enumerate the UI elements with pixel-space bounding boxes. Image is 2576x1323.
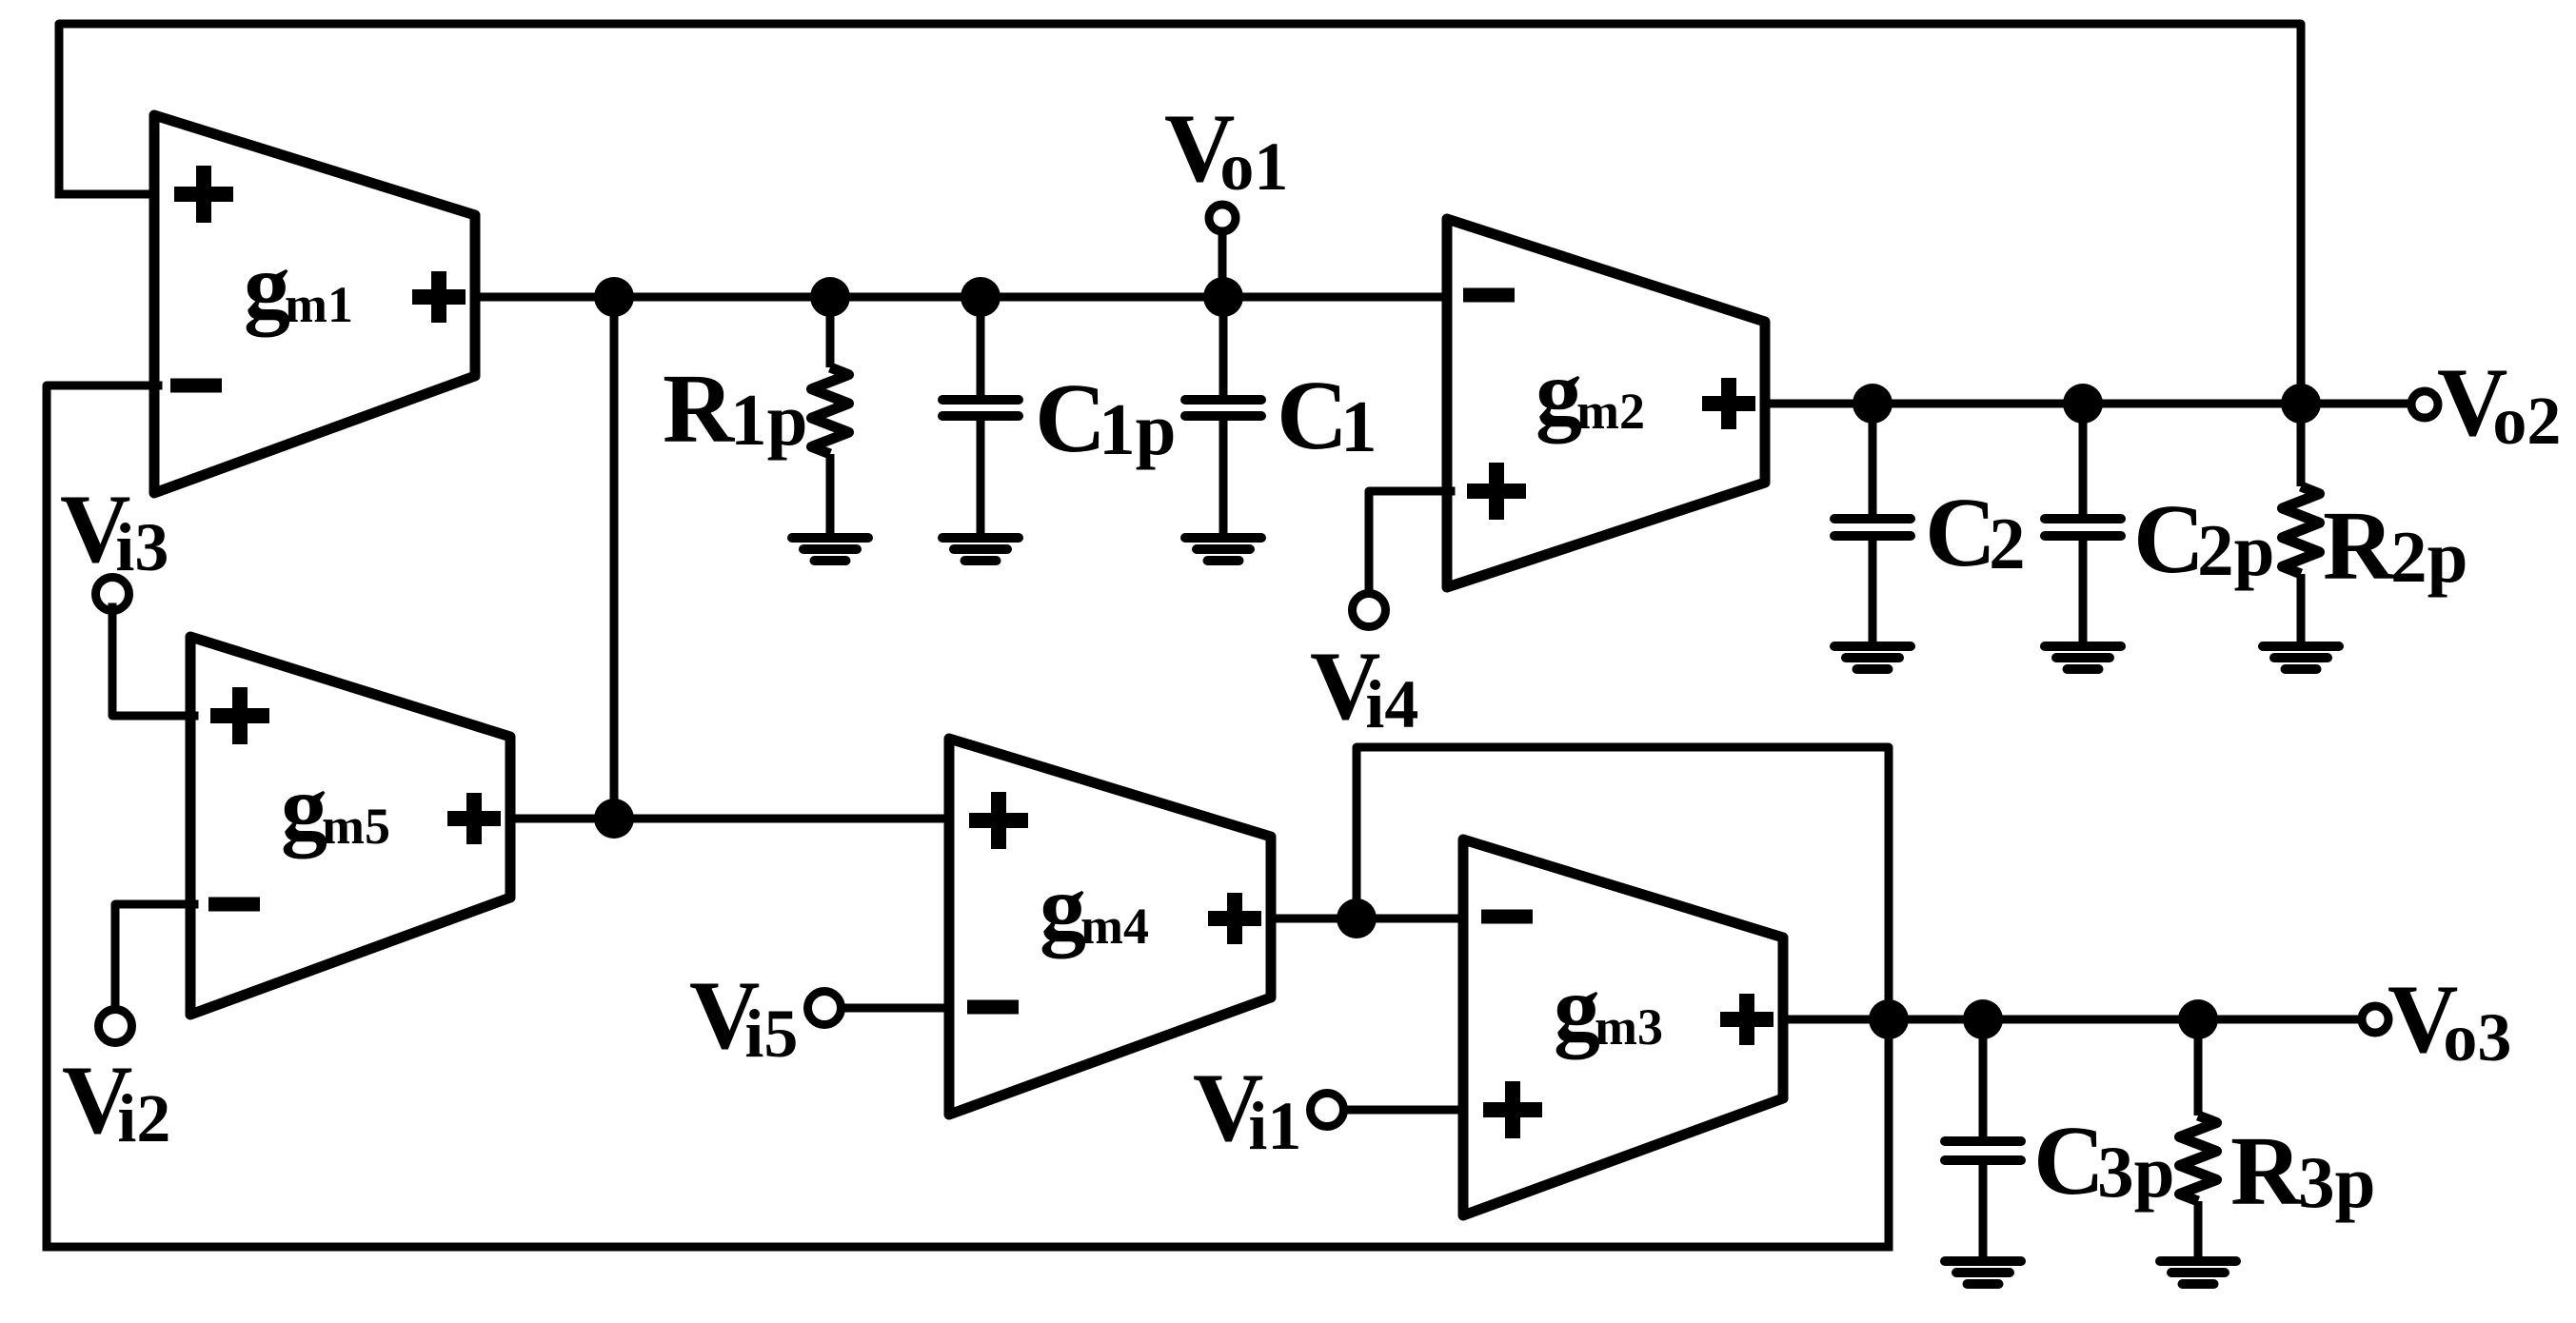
node Vi5 terminal xyxy=(808,992,954,1025)
wire vertical from node Vo1 row down to gm5 output node xyxy=(610,297,619,819)
junction node at (645,312) xyxy=(594,277,634,317)
ground R3p xyxy=(2160,1261,2236,1284)
junction node at (1285,312) xyxy=(1203,277,1243,317)
gm1 label xyxy=(244,235,353,338)
Vi3 label xyxy=(60,475,168,585)
gm2 label xyxy=(1536,342,1645,444)
node Vi1 terminal xyxy=(1311,1094,1468,1127)
node Vo1 terminal xyxy=(1209,205,1236,297)
capacitor C3p xyxy=(1945,1019,2021,1258)
junction node at (2309,1071) xyxy=(2178,999,2218,1039)
C2p value label xyxy=(2133,484,2274,594)
capacitor C2p xyxy=(2045,404,2121,643)
gm1 - input sign xyxy=(170,379,222,393)
junction node at (2188,424) xyxy=(2063,384,2103,424)
ground R2p xyxy=(2263,646,2339,669)
gm2 + input sign xyxy=(1467,463,1526,520)
Vi1 label xyxy=(1193,1054,1301,1164)
gm3 + input sign xyxy=(1483,1081,1542,1138)
R3p value label xyxy=(2230,1116,2375,1226)
node Vi4 terminal xyxy=(1353,491,1452,627)
ground C3p xyxy=(1945,1261,2021,1284)
gm4 + input sign xyxy=(969,792,1028,849)
node Vi3 terminal xyxy=(96,578,195,717)
junction node at (2083,1071) xyxy=(1963,999,2003,1039)
Vi4 label xyxy=(1310,632,1418,742)
gm3 label xyxy=(1554,958,1663,1060)
junction node at (1984,1071) xyxy=(1869,999,1909,1039)
wire gm5 output to gm4 + input xyxy=(510,815,953,823)
capacitor C2 xyxy=(1834,404,1911,643)
C1p value label xyxy=(1035,364,1176,473)
junction node at (1967,424) xyxy=(1853,384,1892,424)
Vo2 label xyxy=(2437,348,2561,459)
node Vo2 terminal xyxy=(2411,391,2438,418)
C2 value label xyxy=(1925,478,2026,587)
ground C1p xyxy=(942,538,1019,561)
junction node at (1425,965) xyxy=(1337,898,1377,938)
op-amp gm3 xyxy=(1463,839,1783,1215)
op-amp gm1 xyxy=(154,115,475,493)
ground C2 xyxy=(1834,646,1911,669)
gm3 output + sign xyxy=(1720,994,1773,1045)
wire gm4 output to gm3 - input xyxy=(1271,915,1467,923)
junction node at (872,312) xyxy=(810,277,850,317)
gm4 label xyxy=(1040,857,1149,959)
gm5 output + sign xyxy=(447,793,501,844)
ground R1p xyxy=(792,538,868,561)
Vo1 label xyxy=(1164,94,1288,205)
junction node at (2417,424) xyxy=(2281,384,2321,424)
R1p value label xyxy=(663,354,807,464)
resistor R1p xyxy=(812,297,849,535)
op-amp gm2 xyxy=(1447,219,1765,587)
wire bottom rail Vo3 feedback xyxy=(47,1243,1889,1252)
wire top feedback Vo2 to gm1 + input xyxy=(59,24,2301,404)
gm5 - input sign xyxy=(208,898,260,912)
node Vo3 terminal xyxy=(2362,1006,2388,1033)
wire gm2 output row to Vo2 terminal xyxy=(1765,400,2411,408)
resistor R2p xyxy=(2283,404,2320,643)
Vi5 label xyxy=(689,961,798,1072)
gm2 - input sign xyxy=(1463,288,1515,303)
gm5 + input sign xyxy=(210,687,269,744)
resistor R3p xyxy=(2180,1019,2217,1258)
wire feedback gm3 output loop (Vi4 node) xyxy=(1357,747,1889,1247)
wire node Vo1 row: gm1 output to gm2 - input xyxy=(475,293,1451,302)
junction node at (645,860) xyxy=(594,799,634,839)
gm4 - input sign xyxy=(967,1000,1019,1015)
op-amp gm4 xyxy=(949,739,1271,1115)
C1 value label xyxy=(1277,361,1377,470)
gm5 label xyxy=(281,757,390,859)
wire gm3 output row to Vo3 terminal xyxy=(1783,1016,2362,1024)
Vo3 label xyxy=(2388,965,2511,1076)
capacitor C1p xyxy=(942,297,1019,535)
C3p value label xyxy=(2033,1106,2174,1215)
ground C2p xyxy=(2045,646,2121,669)
gm2 output + sign xyxy=(1702,378,1755,429)
gm4 output + sign xyxy=(1208,893,1261,944)
gm1 output + sign xyxy=(412,271,466,323)
junction node at (1030,312) xyxy=(961,277,1001,317)
gm1 + input sign xyxy=(174,166,233,223)
wire gm1 - input to left rail down to bottom xyxy=(47,385,158,1247)
gm3 - input sign xyxy=(1481,910,1533,924)
capacitor C1 xyxy=(1185,297,1261,535)
R2p value label xyxy=(2323,491,2467,601)
node Vi2 terminal xyxy=(99,904,195,1043)
Vi2 label xyxy=(62,1046,170,1156)
op-amp gm5 xyxy=(190,637,510,1015)
ground C1 xyxy=(1185,538,1261,561)
